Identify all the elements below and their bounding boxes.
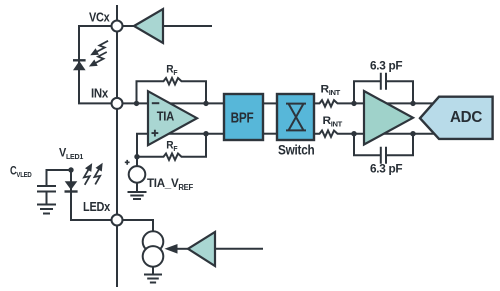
LED light arrow 2 — [88, 161, 106, 185]
op-amp U2 integrator — [364, 91, 413, 145]
junction dot integrator output top — [410, 101, 415, 106]
node INx — [112, 98, 123, 109]
wire + capacitor C1 top integrator feedback — [354, 74, 413, 104]
wire + resistor R_INT top — [314, 100, 436, 106]
arrowhead into current source — [165, 244, 178, 254]
LED light arrow 1 — [78, 161, 96, 185]
wire photodiode branch — [79, 26, 117, 103]
buffer amplifier A1 (top, VCx driver) — [134, 9, 163, 43]
node VCx — [112, 21, 123, 32]
svg-text:6.3 pF: 6.3 pF — [370, 161, 402, 175]
wire current source to buffer A2 — [176, 248, 188, 250]
wire buffer A2 output — [215, 248, 262, 250]
svg-text:RINT: RINT — [321, 83, 342, 97]
photodiode light arrow 1 — [88, 41, 112, 59]
wire + resistor R_INT bottom — [314, 131, 436, 137]
current source I1 — [143, 231, 164, 266]
svg-text:RF: RF — [166, 140, 178, 154]
node LEDx — [112, 215, 123, 226]
junction dot V_LED1 — [68, 167, 73, 172]
ground TIA_VREF — [129, 183, 146, 200]
wire BPF to Switch top — [263, 102, 277, 104]
svg-text:TIA_VREF: TIA_VREF — [147, 176, 193, 192]
svg-text:6.3 pF: 6.3 pF — [370, 58, 402, 72]
wire + resistor R_F bottom feedback — [137, 134, 207, 160]
voltage source TIA_VREF — [125, 160, 146, 183]
svg-text:RF: RF — [166, 64, 178, 78]
op-amp U1 TIA — [148, 91, 197, 145]
junction dot TIA output bottom — [203, 131, 208, 136]
junction dot TIA inverting input — [134, 101, 139, 106]
block Switch — [277, 94, 314, 140]
wire buffer A1 output — [163, 25, 211, 27]
svg-text:RINT: RINT — [323, 115, 344, 129]
junction dot integrator input bottom — [351, 131, 356, 136]
svg-text:ADC: ADC — [450, 109, 482, 126]
wire TIA bottom signal line to BPF — [137, 134, 224, 157]
wire BPF to Switch bottom — [263, 133, 277, 135]
svg-text:BPF: BPF — [231, 110, 254, 127]
ground current source — [145, 267, 161, 283]
wire left rail — [116, 6, 118, 286]
wire + capacitor C2 bottom integrator feedback — [354, 134, 413, 163]
LED D2 — [65, 181, 78, 191]
ground C_VLED — [38, 205, 55, 214]
photodiode D1 — [73, 60, 86, 70]
junction dot TIA_VREF node — [134, 154, 139, 159]
junction dot integrator output bottom — [410, 131, 415, 136]
wire VCx node to buffer A1 — [122, 25, 134, 27]
wire C_VLED branch — [47, 170, 72, 186]
svg-text:VCx: VCx — [89, 9, 110, 24]
wire TIA_VREF source stem — [136, 157, 138, 167]
svg-text:CVLED: CVLED — [10, 166, 32, 180]
junction dot TIA output top — [203, 101, 208, 106]
wire + resistor R_F top feedback — [137, 78, 207, 103]
svg-text:VLED1: VLED1 — [59, 148, 83, 162]
block BPF — [224, 94, 263, 140]
block ADC — [420, 97, 493, 139]
wire LED branch down to LEDx — [71, 170, 117, 220]
svg-text:LEDx: LEDx — [83, 199, 111, 214]
svg-text:TIA: TIA — [157, 108, 175, 123]
photodiode light arrow 2 — [87, 52, 111, 70]
svg-text:INx: INx — [91, 86, 109, 101]
wire LEDx to current source — [122, 220, 153, 232]
junction dot integrator input top — [351, 101, 356, 106]
svg-text:Switch: Switch — [278, 142, 315, 158]
wire TIA top signal line INx to BPF — [122, 102, 224, 104]
capacitor C_VLED plates — [38, 186, 55, 205]
buffer amplifier A2 (LED driver) — [188, 232, 215, 266]
